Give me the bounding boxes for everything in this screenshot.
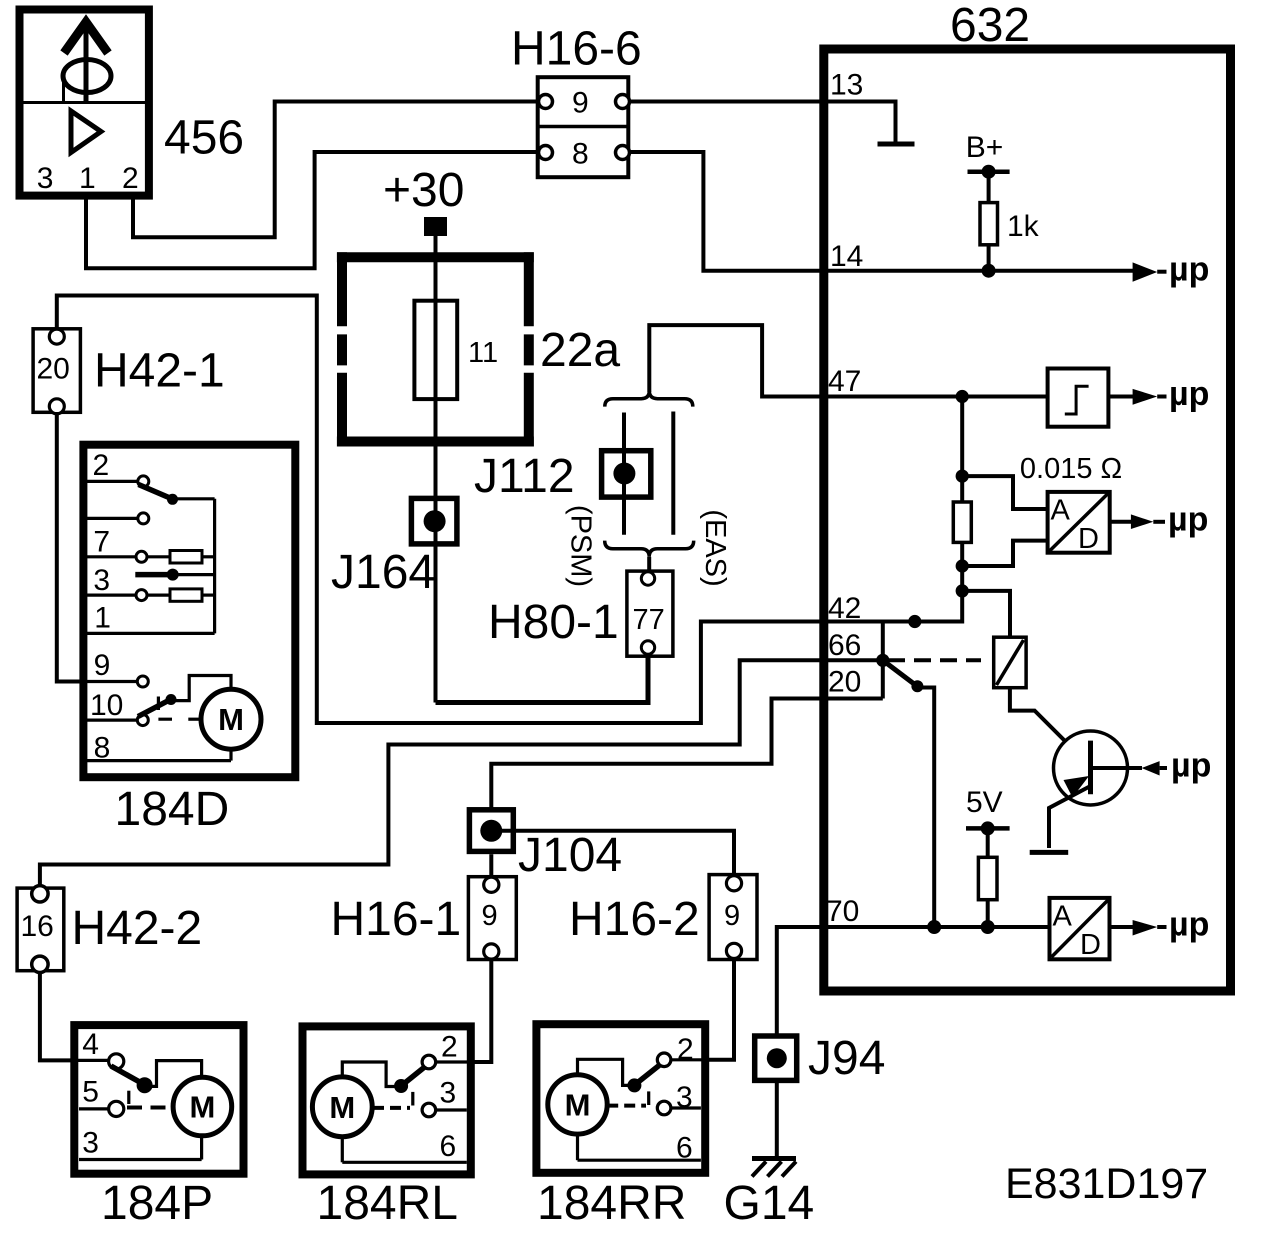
step symbol inside comparator [1065, 386, 1089, 414]
184D bar wire to bus [177, 573, 215, 576]
splice J94 box [755, 1036, 797, 1080]
svg-text:µp: µp [1169, 251, 1209, 289]
wire pin 47 to brace over PSM/EAS [649, 325, 824, 396]
comparator output wire [1108, 395, 1133, 399]
wire 632 pin66 to H42-2 (long run) [40, 660, 824, 886]
wire J104 to H16-1 [489, 854, 493, 876]
internal switch arm [883, 660, 916, 685]
wire 5V to pullup resistor [986, 828, 990, 857]
wire brace to H80-1 pin 77 [647, 557, 651, 572]
+30 terminal square [424, 217, 447, 236]
184P pin 4 contact circle [109, 1054, 124, 1069]
wire B+ to resistor 1k [987, 172, 991, 203]
wire 47 rail down to shunt top [960, 397, 964, 503]
J94 splice dot [767, 1048, 787, 1068]
H42-1 top terminal [49, 329, 64, 344]
svg-text:5V: 5V [966, 786, 1003, 819]
connector H16-1 box [468, 877, 516, 960]
emitter arrowhead [1064, 776, 1090, 798]
actuator 184D box [83, 445, 295, 778]
456 ellipse symbol [63, 60, 111, 93]
wire 42-to-20 vertical link [881, 622, 885, 699]
A/D converter 2 box [1050, 898, 1110, 959]
184P pin 5 contact circle [109, 1101, 124, 1116]
svg-text:D: D [1078, 523, 1099, 555]
456 triangle symbol [71, 111, 101, 153]
wire H16-6 pin8 to 632 pin14 [630, 152, 824, 271]
microprocessor arrow A/D1 [1131, 514, 1153, 529]
184D bar blob [167, 569, 179, 581]
svg-text:3: 3 [82, 1127, 99, 1160]
svg-text:10: 10 [90, 689, 123, 722]
svg-text:16: 16 [21, 910, 54, 943]
184RR motor bottom stub [576, 1134, 579, 1160]
svg-text:1k: 1k [1007, 210, 1040, 243]
splice J164 box [411, 498, 457, 544]
fuse 11 element [414, 301, 457, 399]
svg-text:H80-1: H80-1 [488, 596, 619, 649]
184RL dashed link to motor [373, 1106, 410, 1110]
184D resistor pin3 [170, 589, 202, 601]
microprocessor arrow pin47 [1133, 389, 1158, 405]
svg-text:1: 1 [94, 602, 111, 635]
svg-text:A: A [1053, 901, 1073, 933]
svg-text:M: M [218, 702, 244, 737]
184RR switch arm [637, 1066, 659, 1084]
184D motor circle [201, 689, 261, 749]
wire 632 pin70 to J94 [777, 927, 824, 1034]
184P fixed contact tick [127, 1091, 130, 1104]
184RR motor circle [548, 1075, 607, 1134]
A/D2 output wire [1110, 925, 1134, 929]
184D right bus [213, 499, 216, 634]
wire EAS branch [671, 412, 675, 535]
svg-text:5: 5 [82, 1076, 99, 1109]
svg-text:M: M [189, 1090, 215, 1125]
connector H16-2 box [709, 875, 757, 960]
junction dot pin14/1k [982, 264, 996, 278]
184D pin7 resistor to bus [202, 555, 215, 558]
wire shunt bottom to A/D1 lower input [962, 541, 1047, 566]
pump motor 184P box [74, 1025, 243, 1174]
fuse box 22a dashed border bottom [337, 437, 534, 447]
svg-text:11: 11 [468, 337, 498, 369]
wire H16-2 to 184RR pin 2 [671, 959, 734, 1060]
wire J104 to H16-2 [491, 831, 734, 875]
svg-text:µp: µp [1171, 747, 1211, 785]
svg-text:+30: +30 [383, 164, 464, 217]
184RL pin 2 wire [436, 1060, 471, 1063]
svg-text:J104: J104 [518, 829, 622, 882]
svg-text:47: 47 [828, 365, 861, 398]
svg-text:4: 4 [82, 1028, 99, 1061]
arrow lead pin47 [1157, 395, 1166, 399]
184D resistor pin7 [170, 551, 202, 564]
svg-text:3: 3 [37, 162, 54, 195]
svg-text:14: 14 [830, 240, 863, 273]
184D motor bottom stub [229, 749, 232, 760]
shunt resistor 0.015 ohm [953, 502, 971, 542]
184RL motor bottom stub [341, 1137, 344, 1163]
svg-text:2: 2 [93, 449, 110, 482]
184D pin 3 wire [83, 593, 136, 596]
184D pin 3 wire to resistor [147, 593, 170, 596]
svg-text:66: 66 [828, 629, 861, 662]
wire H42-2 to 184P pin 4 [40, 972, 109, 1060]
H80-1 bottom terminal [641, 641, 654, 654]
184P motor bottom stub [200, 1136, 203, 1160]
184D closed switch bar [135, 572, 168, 578]
svg-text:70: 70 [826, 895, 859, 928]
184RL pin 3 contact circle [422, 1103, 436, 1117]
H42-2 bottom terminal [32, 956, 48, 972]
184D pin 2 contact circle [138, 476, 149, 487]
connector H16-6 box [538, 77, 629, 177]
ground symbol at pin 13 [878, 142, 915, 147]
A/D1 diagonal [1050, 494, 1109, 552]
relay coil box [994, 637, 1026, 688]
svg-text:H16-2: H16-2 [569, 893, 700, 946]
junction dot shunt top [956, 470, 969, 483]
resistor 1k [980, 203, 998, 245]
H16-6 pin 8 right terminal [616, 146, 630, 160]
arrow lead A/D2 [1157, 925, 1166, 929]
184D pin 7 wire to resistor [147, 555, 170, 558]
wire shunt top to A/D1 upper input [962, 476, 1047, 509]
184P pin 5 wire [79, 1107, 109, 1110]
svg-text:9: 9 [572, 86, 589, 119]
brace over PSM/EAS branches [605, 391, 693, 407]
connector H42-1 box [33, 329, 80, 413]
svg-text:H16-6: H16-6 [511, 23, 642, 76]
junction dot relay branch [956, 584, 969, 597]
switch arm contact blob [911, 680, 923, 692]
svg-text:184D: 184D [115, 783, 230, 836]
184D pin 7 wire [83, 555, 136, 558]
184RR fixed contact tick [647, 1091, 650, 1105]
wire PSM branch to J112 [622, 413, 626, 535]
wire resistor 1k to pin14 rail [987, 245, 991, 271]
456 ellipse tail [62, 78, 65, 101]
ECU 632 box [824, 49, 1231, 991]
svg-text:µp: µp [1169, 375, 1209, 413]
wire pin 70 internal rail [824, 925, 1050, 929]
184D arm blob [167, 494, 178, 505]
svg-text:9: 9 [482, 900, 498, 932]
connector H80-1 box [627, 571, 673, 656]
184RL pin 3 wire [436, 1108, 467, 1111]
svg-text:J94: J94 [808, 1032, 885, 1085]
184RR pin 2 contact circle [657, 1053, 671, 1067]
456 arrow head [64, 22, 108, 53]
184D pin 10 contact circle [137, 715, 148, 726]
svg-text:2: 2 [122, 162, 139, 195]
svg-text:D: D [1080, 929, 1101, 961]
junction dot switch pivot pin66 [876, 654, 889, 667]
184RR pin 3 wire [671, 1106, 701, 1109]
184P dashed link to motor [127, 1106, 173, 1110]
fuse box 22a dashed border right [524, 252, 534, 446]
184RL fixed contact tick [411, 1092, 414, 1106]
svg-text:8: 8 [572, 137, 589, 170]
transistor output line [1091, 766, 1143, 770]
wire 632 pin20 to J104 [491, 699, 824, 809]
connector H42-2 box [17, 888, 64, 971]
184RL pin 2 contact circle [422, 1055, 436, 1069]
H16-1 top terminal [484, 877, 499, 892]
svg-text:632: 632 [950, 0, 1030, 52]
B+ junction dot [982, 165, 996, 179]
184D pin 3 contact circle [136, 590, 147, 601]
wire pin 66 internal [824, 658, 883, 662]
microprocessor arrow transistor (pointing left) [1142, 761, 1160, 775]
184RL arm blob [394, 1079, 408, 1093]
brace under PSM/EAS joining to H80-1 [605, 541, 694, 557]
wire J94 to ground G14 [775, 1080, 779, 1157]
H16-1 bottom terminal [484, 944, 499, 959]
relay coil diagonal [997, 640, 1024, 685]
svg-text:77: 77 [633, 604, 665, 636]
184D fixed contact tick [158, 697, 172, 720]
A/D2 diagonal [1052, 900, 1109, 957]
wire H16-6 pin9 to 632 pin13 with internal ground stub [630, 102, 896, 143]
H42-2 top terminal [32, 886, 48, 902]
184P motor circle [173, 1077, 232, 1136]
184D wire arm to bus [173, 497, 215, 500]
184D switch arm pin10 [138, 701, 169, 717]
A/D converter 1 box [1048, 492, 1110, 553]
H16-2 top terminal [726, 876, 741, 891]
184RR pin 3 contact circle [657, 1101, 671, 1115]
wire H42-1 pin20 to 632 pin42 (long run) [57, 296, 824, 724]
wire 456 pin2 to H16-6 pin9 [133, 102, 539, 238]
junction dot shunt bottom [956, 559, 969, 572]
184D pin 9 wire [83, 680, 137, 683]
184RR arm blob [627, 1078, 641, 1092]
184RL switch arm [404, 1068, 425, 1085]
svg-text:M: M [565, 1087, 591, 1122]
H42-1 bottom terminal [49, 399, 64, 414]
svg-text:184P: 184P [101, 1177, 213, 1230]
wire H16-1 to 184RL pin 2 [436, 959, 491, 1062]
microprocessor arrow A/D2 [1133, 920, 1158, 936]
wire H80-1 bottom to J164 rail [436, 654, 649, 703]
svg-text:9: 9 [94, 649, 111, 682]
184RL wire arm to motor top [342, 1062, 401, 1087]
transistor emitter line [1049, 786, 1091, 848]
pullup resistor [978, 857, 997, 899]
184RL motor circle [312, 1077, 372, 1137]
svg-text:J164: J164 [331, 546, 435, 599]
wire resistor to pin70 rail [986, 900, 990, 927]
svg-text:1: 1 [79, 162, 96, 195]
svg-text:20: 20 [37, 353, 70, 386]
svg-text:20: 20 [828, 666, 861, 699]
184D pin 8 wire [83, 759, 231, 762]
svg-text:(EAS): (EAS) [699, 509, 731, 586]
junction dot 47 rail [956, 390, 969, 403]
wire to relay coil [962, 591, 1010, 638]
svg-text:9: 9 [724, 900, 740, 932]
svg-text:22a: 22a [540, 324, 620, 377]
J112 splice dot [613, 463, 635, 485]
184D wire arm10 to motor top [171, 676, 231, 701]
184D pin 7 contact circle [136, 551, 147, 562]
184D spare contact wire [83, 517, 138, 520]
svg-text:µp: µp [1169, 906, 1209, 944]
comparator box (threshold) [1048, 369, 1109, 427]
J104 splice dot [480, 820, 502, 842]
transistor base bar [1088, 741, 1093, 795]
184P arm blob [137, 1077, 153, 1093]
transistor circle [1054, 731, 1128, 805]
H80-1 top terminal [641, 572, 654, 585]
svg-text:3: 3 [93, 564, 110, 597]
184D pin 9 contact circle [137, 676, 148, 687]
H16-2 bottom terminal [726, 943, 741, 958]
184D motor left stub [188, 718, 201, 721]
456 internal divider [24, 101, 146, 104]
184D switch arm pin2 [139, 485, 171, 499]
184RR pin 6 wire [578, 1159, 701, 1162]
dashed actuation line to relay [888, 658, 981, 662]
wire +30 through fuse to junction J164 and bottom rail [434, 236, 438, 703]
svg-text:B+: B+ [966, 131, 1004, 164]
A/D1 output wire [1110, 520, 1132, 524]
svg-text:3: 3 [440, 1077, 457, 1110]
svg-text:13: 13 [830, 69, 863, 102]
wire shunt bottom [960, 542, 964, 591]
184RL pin 6 wire [342, 1161, 467, 1164]
H16-6 pin 9 left terminal [539, 95, 553, 109]
184D pin 1 wire [83, 632, 215, 635]
H16-6 pin 9 right terminal [616, 95, 630, 109]
svg-text:E831D197: E831D197 [1005, 1160, 1208, 1208]
184RR pin 2 wire [671, 1058, 705, 1061]
svg-text:J112: J112 [474, 450, 575, 503]
G14 hatch strokes [752, 1162, 796, 1177]
5V junction dot [981, 821, 995, 835]
184P wire arm to motor top [145, 1061, 202, 1087]
svg-text:(PSM): (PSM) [565, 505, 597, 587]
wire pin 14 internal rail [824, 269, 1133, 273]
wire H42-1 bottom to 184D pin 9 [57, 412, 90, 682]
rear-right motor 184RR box [536, 1024, 705, 1173]
B+ terminal bar [968, 169, 1010, 174]
svg-text:184RL: 184RL [317, 1177, 458, 1230]
184P pin 4 wire [70, 1059, 109, 1062]
svg-text:456: 456 [164, 112, 244, 165]
456 arrow symbol shaft [84, 22, 89, 101]
ground symbol at emitter [1030, 850, 1069, 855]
wire switch to pin70 rail [917, 688, 934, 928]
splice J104 box [469, 810, 513, 852]
fuse box 22a dashed border top [337, 252, 534, 262]
rear-left motor 184RL box [303, 1026, 471, 1174]
svg-text:6: 6 [440, 1130, 457, 1163]
svg-text:H42-1: H42-1 [94, 345, 225, 398]
5V terminal bar [966, 826, 1010, 831]
H16-6 divider [538, 125, 629, 129]
fuse box 22a dashed border left [337, 252, 347, 446]
wire relay to transistor base [1010, 688, 1089, 765]
wire pin 47 internal rail [824, 395, 1048, 399]
junction dot pin70/switch [927, 920, 941, 934]
chassis ground G14 bar [752, 1156, 796, 1161]
wire pin 20 internal [824, 697, 883, 701]
svg-text:G14: G14 [724, 1177, 815, 1230]
junction dot pin42 rail [908, 615, 921, 628]
wire 456 pin1 to H16-6 pin8 [86, 152, 539, 268]
arrow lead A/D1 [1153, 520, 1165, 524]
svg-text:µp: µp [1168, 500, 1208, 538]
wire pin 42 internal rail [824, 591, 962, 622]
J164 splice dot [424, 510, 446, 532]
184RR wire arm to motor top [578, 1059, 635, 1085]
184D spare contact circle [138, 513, 149, 524]
svg-text:H16-1: H16-1 [331, 893, 462, 946]
arrow lead transistor [1160, 766, 1167, 770]
184D pin 2 wire [83, 480, 138, 483]
svg-text:2: 2 [441, 1031, 458, 1064]
svg-text:7: 7 [93, 526, 110, 559]
184D arm10 blob [166, 694, 177, 705]
junction dot pin70/pullup [981, 920, 995, 934]
184P switch arm [111, 1066, 142, 1083]
H16-6 pin 8 left terminal [539, 146, 553, 160]
splice J112 box [602, 451, 651, 497]
svg-text:A: A [1051, 495, 1071, 527]
svg-text:H42-2: H42-2 [72, 902, 203, 955]
184D pin 10 wire [83, 718, 137, 721]
svg-text:184RR: 184RR [537, 1177, 686, 1230]
svg-text:M: M [329, 1090, 355, 1125]
component 456 box (sensor unit) [20, 10, 149, 196]
microprocessor arrow pin14 [1133, 262, 1158, 281]
184RR dashed link to motor [607, 1104, 646, 1108]
svg-text:0.015 Ω: 0.015 Ω [1020, 453, 1122, 485]
184D pin3 resistor to bus [202, 593, 215, 596]
184P pin 3 wire [79, 1158, 202, 1161]
arrow lead pin14 [1157, 270, 1166, 274]
